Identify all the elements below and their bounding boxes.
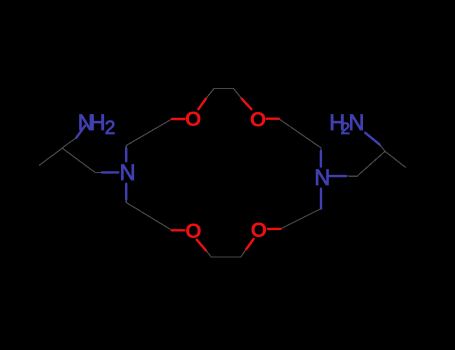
svg-text:N: N	[349, 110, 365, 135]
svg-text:NH: NH	[78, 110, 105, 135]
svg-text:N: N	[314, 165, 330, 190]
svg-text:O: O	[251, 219, 267, 242]
svg-text:O: O	[185, 108, 201, 131]
svg-text:O: O	[185, 220, 201, 243]
svg-text:2: 2	[105, 118, 116, 139]
svg-text:O: O	[250, 108, 266, 131]
svg-text:N: N	[120, 160, 136, 185]
